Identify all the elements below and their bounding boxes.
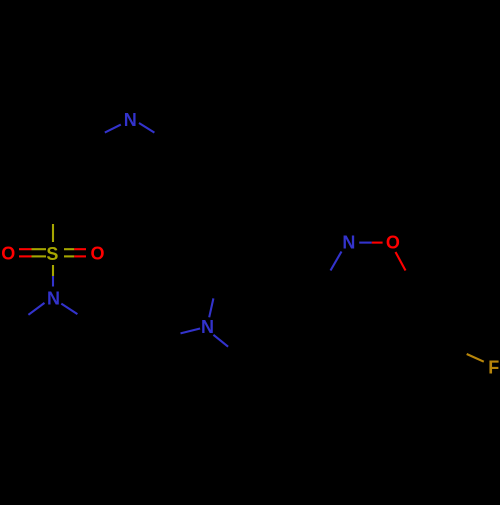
svg-text:N: N xyxy=(201,317,214,337)
svg-text:N: N xyxy=(342,233,355,253)
svg-text:N: N xyxy=(47,289,60,309)
svg-text:O: O xyxy=(386,233,400,253)
svg-text:O: O xyxy=(90,244,104,264)
svg-text:O: O xyxy=(1,243,15,263)
svg-text:N: N xyxy=(124,110,137,130)
svg-text:S: S xyxy=(46,244,58,264)
svg-text:F: F xyxy=(488,357,499,377)
